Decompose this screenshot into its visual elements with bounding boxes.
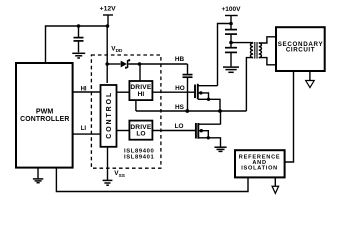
svg-text:LO: LO bbox=[136, 131, 145, 138]
svg-text:HB: HB bbox=[175, 56, 185, 63]
svg-text:HI: HI bbox=[138, 91, 145, 98]
svg-text:CONTROLLER: CONTROLLER bbox=[20, 116, 69, 123]
svg-text:LI: LI bbox=[81, 126, 87, 132]
svg-text:+100V: +100V bbox=[222, 6, 242, 13]
svg-text:CONTROL: CONTROL bbox=[106, 91, 113, 139]
svg-text:DD: DD bbox=[116, 48, 123, 53]
svg-text:HO: HO bbox=[175, 85, 185, 92]
svg-text:CIRCUIT: CIRCUIT bbox=[286, 47, 315, 54]
svg-text:HS: HS bbox=[175, 104, 185, 111]
svg-text:LO: LO bbox=[175, 123, 184, 130]
svg-text:SS: SS bbox=[119, 173, 125, 178]
svg-text:PWM: PWM bbox=[36, 107, 53, 115]
svg-text:ISL89401: ISL89401 bbox=[124, 154, 154, 160]
svg-text:+12V: +12V bbox=[100, 6, 117, 13]
svg-text:HI: HI bbox=[81, 86, 87, 92]
svg-text:ISOLATION: ISOLATION bbox=[241, 166, 278, 172]
